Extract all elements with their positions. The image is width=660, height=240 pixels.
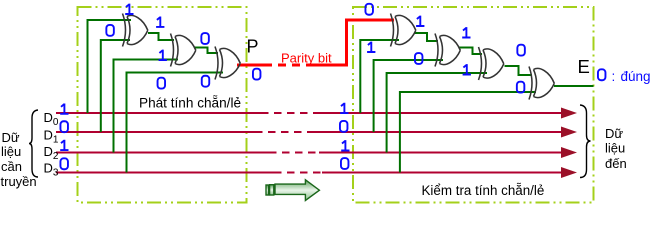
svg-text::: : [612, 69, 616, 84]
svg-text:Dữ: Dữ [2, 130, 20, 145]
svg-text:E: E [578, 56, 590, 77]
svg-text:P: P [247, 37, 259, 57]
svg-text:liệu: liệu [605, 141, 625, 156]
svg-text:đúng: đúng [621, 69, 651, 84]
svg-text:truyền: truyền [1, 174, 37, 189]
svg-text:Parity bit: Parity bit [281, 50, 332, 65]
svg-text:đến: đến [605, 156, 627, 171]
svg-text:Kiểm tra tính chẵn/lẻ: Kiểm tra tính chẵn/lẻ [422, 183, 545, 198]
svg-text:liệu: liệu [1, 144, 21, 159]
svg-text:Phát tính chẵn/lẻ: Phát tính chẵn/lẻ [139, 96, 241, 111]
svg-text:cần: cần [1, 159, 22, 174]
svg-text:Dữ: Dữ [605, 126, 623, 141]
